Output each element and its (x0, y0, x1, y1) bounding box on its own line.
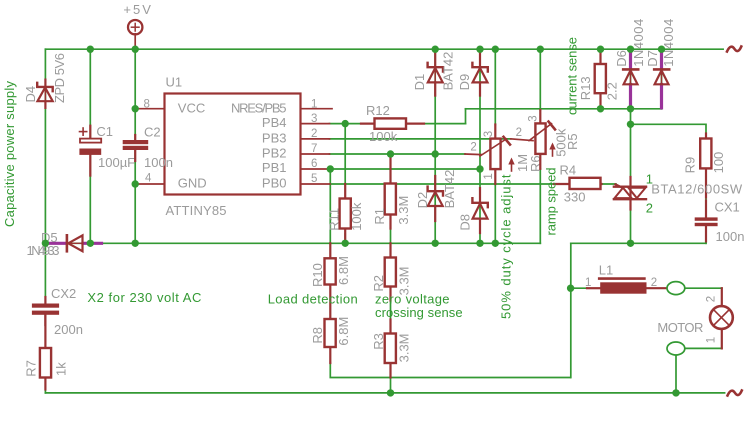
svg-text:R12: R12 (366, 103, 390, 118)
junction rail x661 (658, 46, 665, 53)
pin 2 stub (301, 138, 330, 140)
junction sense row D6 (627, 105, 634, 112)
wire R9 branch from triac column (631, 124, 707, 134)
potentiometer R6 1M (465, 125, 543, 185)
svg-text:crossing sense: crossing sense (375, 305, 463, 320)
wire PB4 net row (pin3) (330, 123, 466, 125)
svg-text:R11: R11 (326, 208, 341, 231)
svg-text:MOTOR: MOTOR (657, 320, 703, 335)
pin 7 stub (301, 153, 330, 155)
wire motor top terminal to motor (685, 287, 722, 289)
wire R13 column (600, 49, 602, 109)
wire R11 bottom to 243 row (344, 234, 346, 243)
svg-text:3.3M: 3.3M (396, 333, 411, 362)
motor M1 (657, 288, 732, 348)
wire load column x570 (570, 243, 572, 377)
svg-text:PB1: PB1 (262, 160, 287, 175)
junction 243 row R6 (492, 240, 499, 247)
junction PB2 row D1-D2 (432, 150, 439, 157)
svg-text:D2: D2 (415, 192, 430, 209)
junction GND pin4 (132, 180, 139, 187)
wire left column from rail to bottom (44, 49, 46, 243)
svg-text:100µF: 100µF (98, 155, 135, 170)
pin 8 VCC stub (135, 108, 164, 110)
svg-text:1: 1 (585, 277, 591, 289)
svg-text:R2: R2 (371, 275, 386, 292)
junction VCC pin8 (132, 105, 139, 112)
svg-text:X2 for 230 volt AC: X2 for 230 volt AC (87, 290, 201, 305)
svg-text:R7: R7 (23, 360, 38, 377)
wire triac D6 column (630, 49, 632, 243)
wire PB1 net row (pin6) (330, 168, 481, 170)
wire R6 pot top column from rail (494, 49, 496, 124)
wire C1 column (89, 49, 91, 138)
wire CX1 bottom to 243 row (705, 241, 707, 243)
wire R11 column from pin3 junction (344, 124, 346, 184)
svg-text:D9: D9 (457, 74, 472, 91)
resistor R4 330 (554, 163, 602, 205)
junction PB4 row R11 (342, 120, 349, 127)
junction 243 row x45 (42, 240, 49, 247)
svg-text:3.3M: 3.3M (396, 196, 411, 225)
diode D7 1N4004 (645, 19, 676, 108)
resistor R8 6.8M (310, 317, 351, 363)
junction 243 row D2 (432, 240, 439, 247)
wire PB0 net row (pin5) to R4 (330, 183, 554, 185)
wire between R8 bottom and load row (330, 363, 570, 378)
capacitor C2 100n (123, 125, 173, 170)
svg-text:ATTINY85: ATTINY85 (166, 203, 227, 218)
svg-text:C1: C1 (96, 124, 113, 139)
wire PB2 net row (pin7) to R6 wiper (330, 153, 466, 155)
schottky diode D9 (457, 51, 488, 96)
svg-text:100n: 100n (144, 155, 173, 170)
AC source tilde top (727, 47, 741, 52)
svg-text:+5V: +5V (123, 2, 151, 17)
R5 wiper feed from PB3 (511, 139, 533, 141)
svg-text:3: 3 (483, 131, 495, 137)
svg-text:1: 1 (705, 337, 717, 343)
wire R12 step (465, 109, 467, 124)
svg-text:ramp speed: ramp speed (544, 168, 559, 236)
svg-text:100n: 100n (716, 229, 745, 244)
resistor R10 6.8M (310, 243, 351, 319)
wire D9 D8 column (479, 49, 481, 243)
svg-text:3: 3 (528, 115, 540, 121)
resistor R9 100 (683, 134, 726, 198)
capacitor C1 100uF electrolytic (79, 124, 135, 175)
inductor L1 (585, 263, 657, 294)
wire 243 row right segment triac MT2 (571, 242, 706, 244)
junction rail x600 (597, 46, 604, 53)
wire left column lower segment CX2/R7 (44, 243, 46, 303)
svg-text:1k: 1k (54, 362, 69, 376)
svg-text:D8: D8 (457, 214, 472, 231)
junction rail x630 (627, 46, 634, 53)
schottky diode D2 BAT42 (415, 170, 457, 221)
svg-text:4: 4 (145, 173, 152, 185)
junction R9 branch (627, 121, 634, 128)
junction rail x135 (132, 46, 139, 53)
wire motor bottom column to rail (675, 355, 677, 393)
junction bottom rail motor (672, 389, 679, 396)
junction sense row R13 (597, 105, 604, 112)
R5 trimmer arrow (552, 145, 554, 156)
schottky diode D1 BAT42 (412, 51, 455, 96)
svg-text:2: 2 (705, 296, 717, 302)
svg-text:2: 2 (311, 128, 317, 140)
wire bottom AC rail net N (45, 392, 724, 394)
svg-text:6.8M: 6.8M (336, 256, 351, 285)
svg-text:Capacitive power supply: Capacitive power supply (2, 81, 17, 228)
svg-text:3: 3 (311, 113, 317, 125)
svg-text:NRES/PB5: NRES/PB5 (231, 100, 287, 115)
R6 wiper feed from PB2 (465, 153, 481, 156)
wire motor bottom terminal wire (685, 347, 722, 349)
resistor R12 100k (361, 103, 424, 144)
wire R5 pot top column from rail (539, 49, 541, 110)
pin 5 stub (301, 183, 330, 185)
svg-text:BAT42: BAT42 (442, 170, 457, 209)
wire R5 bottom elbow column (539, 169, 541, 244)
triac T1 BTA12/600SW (614, 171, 743, 215)
connector pad X1-1 bottom (667, 342, 685, 355)
connector pad X1-2 top (667, 282, 685, 295)
wire triac gate stub (601, 183, 616, 185)
svg-text:U1: U1 (166, 75, 183, 90)
svg-text:2: 2 (516, 127, 522, 139)
junction rail x435 (432, 46, 439, 53)
supply symbol +5V (123, 2, 151, 48)
junction bottom rail R3 (387, 389, 394, 396)
junction PB1 row D9-D8 (476, 165, 483, 172)
svg-text:R13: R13 (578, 76, 593, 100)
svg-text:C2: C2 (144, 125, 161, 140)
junction rail x90 (87, 46, 94, 53)
svg-text:CX1: CX1 (715, 199, 740, 214)
svg-text:R5: R5 (565, 133, 580, 150)
resistor R11 100k (326, 184, 364, 243)
svg-text:PB3: PB3 (262, 130, 287, 145)
svg-text:7: 7 (311, 143, 317, 155)
junction 243 row R11 (342, 240, 349, 247)
svg-text:PB0: PB0 (262, 176, 287, 191)
svg-text:R10: R10 (310, 263, 325, 287)
svg-text:current sense: current sense (564, 37, 579, 115)
svg-text:BTA12/600SW: BTA12/600SW (651, 181, 743, 196)
svg-text:200n: 200n (54, 322, 83, 337)
junction 243 row C1 (87, 240, 94, 247)
capacitor CX1 100n (695, 199, 745, 243)
svg-text:R1: R1 (372, 208, 387, 225)
pin 3 stub (301, 123, 330, 125)
IC U1 ATTINY85 (135, 75, 332, 218)
svg-text:D7: D7 (645, 50, 660, 67)
svg-text:BAT42: BAT42 (440, 52, 455, 91)
svg-text:1: 1 (483, 173, 495, 179)
svg-text:PB2: PB2 (262, 146, 287, 161)
wire R9 to CX1 gap (705, 197, 707, 201)
wire top AC rail net L (45, 48, 723, 50)
wire R1 R2 R3 column segments (390, 228, 392, 258)
junction 243 row triac (627, 240, 634, 247)
svg-text:6: 6 (311, 158, 317, 170)
potentiometer R5 500k (511, 110, 580, 169)
wire PB3 net row (pin2) to R5 wiper (330, 138, 511, 140)
svg-text:D4: D4 (23, 86, 38, 103)
schottky diode D8 (457, 188, 487, 233)
svg-text:PB4: PB4 (262, 115, 287, 130)
svg-text:1: 1 (311, 98, 317, 110)
wire C2 / VCC-GND column (134, 49, 136, 139)
wire L1 feed (571, 287, 588, 289)
diode D6 1N4004 (614, 19, 646, 108)
svg-text:1N4004: 1N4004 (661, 19, 676, 67)
svg-text:330: 330 (564, 190, 586, 205)
wire sense row y109 (466, 108, 662, 110)
svg-text:2: 2 (651, 277, 657, 289)
svg-text:8: 8 (144, 99, 150, 111)
R6 trimmer arrow (511, 160, 513, 171)
zener diode D4 ZPD 5V6 (23, 53, 67, 108)
svg-text:Load detection: Load detection (268, 292, 358, 307)
svg-text:5: 5 (311, 173, 317, 185)
wire R6 pot bottom column to 243 row (494, 184, 496, 244)
svg-text:100k: 100k (349, 202, 364, 231)
svg-text:L1: L1 (599, 263, 613, 278)
resistor R1 3.3M (372, 154, 411, 229)
svg-text:R8: R8 (310, 327, 325, 344)
junction rail x540 (537, 46, 544, 53)
svg-text:R3: R3 (371, 333, 386, 350)
wire D1 D2 column (434, 49, 436, 243)
svg-text:CX2: CX2 (51, 286, 76, 301)
junction rail x495 (492, 46, 499, 53)
pin 1 NRES stub (301, 108, 333, 110)
svg-text:6.8M: 6.8M (336, 317, 351, 346)
wire D7 column (661, 49, 663, 109)
wire L1 to motor terminal (647, 287, 668, 289)
svg-text:2: 2 (646, 200, 653, 215)
svg-text:VCC: VCC (178, 100, 205, 115)
junction PB2 row R1 (387, 150, 394, 157)
svg-text:100: 100 (711, 152, 726, 174)
junction L1 branch (567, 285, 574, 292)
junction 243 row C2 (132, 240, 139, 247)
svg-text:D1: D1 (412, 74, 427, 91)
svg-text:R9: R9 (683, 157, 698, 174)
resistor R13 2.2 (578, 49, 619, 109)
resistor R3 3.3M (371, 320, 411, 378)
svg-text:D6: D6 (614, 50, 629, 67)
svg-text:100k: 100k (369, 129, 398, 144)
junction PB1 row R10 (327, 165, 334, 172)
svg-text:ZPD 5V6: ZPD 5V6 (52, 53, 67, 103)
junction rail x480 (476, 46, 483, 53)
resistor R7 1k (23, 315, 68, 390)
AC source tilde bottom (728, 391, 742, 396)
svg-text:50% duty cycle adjust: 50% duty cycle adjust (499, 174, 514, 319)
svg-text:GND: GND (178, 176, 207, 191)
diode D5 1N4933 (27, 230, 102, 258)
svg-text:R4: R4 (560, 163, 577, 178)
resistor R2 3.3M (371, 243, 412, 300)
wire R10/R8 column from pin6 junction (329, 169, 331, 244)
svg-text:1N4004: 1N4004 (631, 19, 646, 67)
svg-text:2.2: 2.2 (604, 82, 619, 100)
pin 6 stub (301, 168, 330, 170)
junction 243 row D8 (476, 240, 483, 247)
capacitor CX2 200n (32, 286, 83, 337)
svg-text:2: 2 (470, 141, 476, 153)
wire 243 common row left segment (45, 242, 540, 244)
pin 4 GND stub (135, 183, 164, 185)
